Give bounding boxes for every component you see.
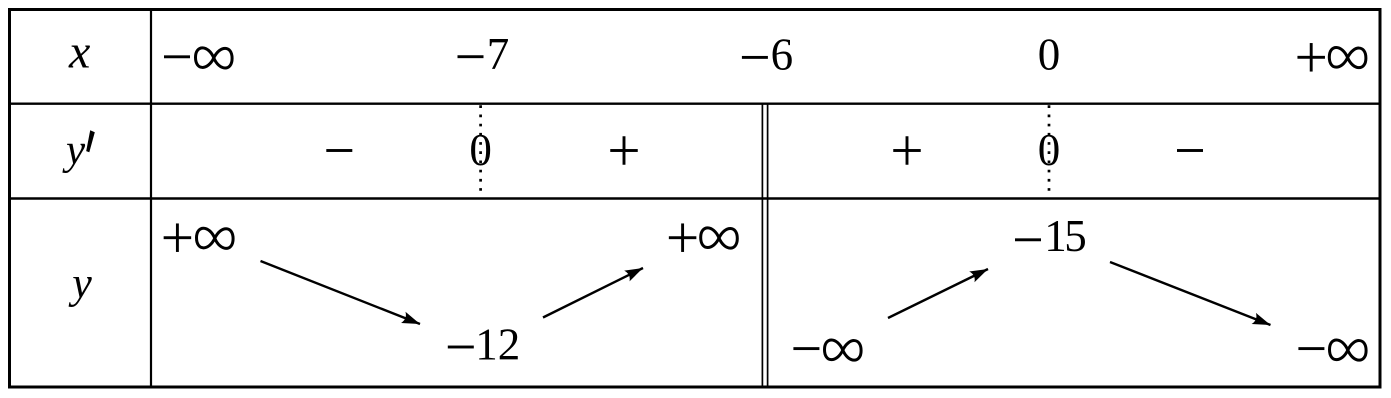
row y: minus infinity bottom left of right half (793, 347, 819, 350)
row x: plus infinity (1297, 43, 1325, 72)
svg-text:0: 0 (469, 125, 492, 175)
row y': minus sign left (326, 149, 352, 152)
row y': plus sign left half (610, 136, 638, 165)
row y': dotted line at -7 (479, 105, 482, 197)
row x: -7 (458, 55, 484, 58)
svg-text:6: 6 (771, 29, 794, 79)
svg-text:15: 15 (1044, 211, 1085, 261)
row x: minus infinity (164, 55, 190, 58)
row y: decreasing arrow to -infinity (1110, 262, 1271, 325)
row y: minus infinity bottom right (1298, 347, 1324, 350)
row y: increasing arrow to +infinity (543, 268, 643, 318)
vertical rule separating label column (150, 8, 152, 388)
row y': minus sign right (1177, 149, 1203, 152)
horizontal rule under row x (8, 102, 1381, 104)
row y': plus sign right half (893, 136, 921, 165)
double vertical rule at x=-6 (762, 104, 767, 387)
horizontal rule under row y' (8, 197, 1381, 199)
svg-text:0: 0 (1038, 29, 1061, 79)
svg-text:12: 12 (475, 319, 520, 369)
svg-text:y: y (62, 127, 86, 174)
row y: increasing arrow to -15 (888, 269, 988, 318)
row y: plus infinity top left (164, 223, 192, 252)
svg-text:x: x (68, 25, 90, 78)
row y: maximum value -15 (1015, 238, 1041, 241)
row y: decreasing arrow to -12 (261, 261, 421, 324)
svg-text:0: 0 (1038, 125, 1061, 175)
svg-text:y: y (68, 258, 92, 307)
row y: minimum value -12 (448, 346, 474, 349)
row x: -6 (742, 56, 768, 59)
row y: plus infinity top right of left half (669, 223, 697, 252)
row y': dotted line at 0 (1048, 105, 1051, 197)
svg-text:7: 7 (487, 29, 510, 79)
